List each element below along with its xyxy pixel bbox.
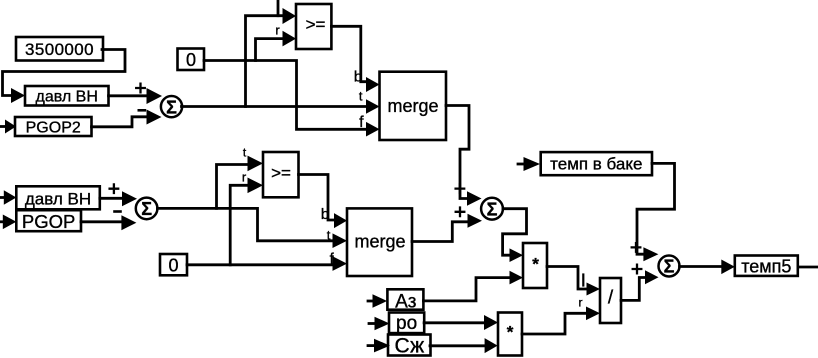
arrowhead into sum S2 plus bbox=[122, 191, 137, 206]
wire Сж input stub bbox=[368, 344, 374, 347]
wire stub from top edge into GE1 input 1 bbox=[277, 0, 280, 16]
arrowhead into product P2 input 2 bbox=[485, 338, 498, 353]
arrowhead into merge M2 t input bbox=[333, 233, 348, 248]
arrowhead into sum S1 plus bbox=[147, 88, 163, 104]
svg-text:3500000: 3500000 bbox=[25, 40, 94, 59]
wire PGOP to sum S2 minus input bbox=[81, 220, 123, 223]
arrowhead into темп5 bbox=[721, 260, 735, 275]
svg-text:0: 0 bbox=[186, 50, 196, 70]
wire темп в баке output to sum S4 input 1 bbox=[637, 163, 675, 254]
label plus sum S1 bbox=[136, 84, 145, 93]
arrowhead into sum S2 minus bbox=[121, 215, 136, 230]
label minus sum S1 bbox=[139, 109, 145, 112]
block темп в баке bbox=[541, 152, 652, 175]
svg-text:PGOP2: PGOP2 bbox=[26, 120, 81, 137]
svg-text:Σ: Σ bbox=[664, 257, 675, 277]
svg-text:*: * bbox=[532, 255, 539, 274]
wire давл ВН 2 to sum S2 plus input bbox=[100, 197, 123, 200]
svg-text:PGOP: PGOP bbox=[22, 211, 75, 232]
arrowhead into давл ВН 2 bbox=[4, 190, 16, 205]
block Сж bbox=[388, 335, 431, 356]
wire темп в баке input stub bbox=[518, 163, 524, 166]
svg-text:темп в баке: темп в баке bbox=[550, 155, 642, 174]
wire темп5 output to right edge bbox=[798, 266, 818, 269]
arrowhead into comparator GE2 input 2 bbox=[248, 178, 264, 194]
wire sum S4 output to темп5 bbox=[680, 265, 723, 268]
block давл ВН bbox=[25, 86, 109, 106]
arrowhead into comparator GE1 input 1 bbox=[283, 8, 297, 24]
arrowhead into product P1 input 1 bbox=[510, 248, 524, 262]
label plus sum S3 input 2 bbox=[456, 208, 465, 217]
svg-text:>=: >= bbox=[306, 15, 326, 34]
svg-text:давл ВН: давл ВН bbox=[36, 89, 98, 106]
svg-text:ро: ро bbox=[396, 313, 417, 334]
wire junction riser to comparator GE1 input 1 bbox=[246, 16, 284, 107]
arrowhead into sum S4 input 2 bbox=[645, 270, 659, 284]
wire product P1 output to divide D1 l input bbox=[547, 267, 586, 290]
wire Аз input stub bbox=[368, 300, 373, 303]
arrowhead into divide D1 r input bbox=[586, 307, 600, 321]
arrowhead into comparator GE1 input 2 bbox=[283, 31, 297, 47]
svg-text:merge: merge bbox=[354, 232, 405, 252]
label plus sum S4 input 1 bbox=[632, 243, 641, 252]
arrowhead into product P2 input 1 bbox=[484, 315, 498, 330]
svg-text:r: r bbox=[275, 23, 280, 38]
sum S2 bbox=[136, 198, 158, 220]
wire ро output to product P2 input 1 bbox=[424, 321, 484, 324]
constant 3500000 bbox=[16, 37, 103, 61]
comparator GE2 bbox=[263, 152, 299, 197]
arrowhead into merge M1 t input bbox=[366, 99, 380, 114]
label l on divide D1 bbox=[582, 275, 584, 286]
arrowhead into sum S3 input 1 bbox=[467, 191, 482, 206]
svg-text:t: t bbox=[327, 228, 331, 243]
constant 0b bbox=[160, 254, 187, 275]
sum S4 bbox=[659, 256, 680, 277]
arrowhead into sum S3 input 2 bbox=[468, 214, 483, 228]
wire constant 0a to merge M1 f input bbox=[204, 61, 366, 130]
svg-text:Σ: Σ bbox=[141, 199, 152, 219]
wire PGOP2 input stub bbox=[0, 125, 7, 128]
wire sum S1 output to merge M1 t input bbox=[182, 105, 367, 108]
arrowhead into PGOP2 bbox=[5, 120, 16, 134]
svg-text:t: t bbox=[359, 88, 363, 103]
arrowhead into merge M1 f input bbox=[366, 122, 380, 137]
svg-text:b: b bbox=[354, 68, 362, 85]
divide D1 bbox=[600, 278, 621, 323]
svg-text:r: r bbox=[579, 296, 583, 310]
arrowhead into sum S4 input 1 bbox=[643, 247, 658, 261]
label plus sum S4 input 2 bbox=[633, 265, 642, 274]
block ро bbox=[389, 313, 424, 334]
wire branch of 0a to comparator GE1 input 2 bbox=[256, 39, 284, 61]
wire PGOP2 to sum S1 minus input bbox=[92, 117, 149, 127]
svg-text:Сж: Сж bbox=[394, 335, 424, 358]
wire comparator GE2 output to merge M2 b input bbox=[299, 175, 336, 221]
arrowhead into merge M2 f input bbox=[333, 256, 348, 271]
constant 0a bbox=[178, 49, 205, 71]
wire divide D1 output to sum S4 input 2 bbox=[621, 278, 645, 301]
arrowhead into divide D1 l input bbox=[587, 283, 601, 296]
svg-text:>=: >= bbox=[271, 164, 291, 183]
wire merge M1 output to sum S3 input 1 bbox=[446, 106, 469, 199]
wire sum S2 output to merge M2 t input bbox=[157, 208, 333, 240]
product P2 bbox=[498, 313, 522, 356]
block темп5 bbox=[735, 256, 798, 276]
arrowhead into merge M2 b input bbox=[334, 213, 347, 228]
label minus sum S2 bbox=[115, 210, 121, 213]
arrowhead into давл ВН bbox=[11, 88, 25, 103]
wire branch of 0b to comparator GE2 input 2 bbox=[230, 185, 249, 264]
svg-text:давл ВН: давл ВН bbox=[25, 189, 91, 208]
svg-text:темп5: темп5 bbox=[741, 256, 791, 276]
sum S3 bbox=[481, 198, 503, 220]
block Аз bbox=[387, 289, 423, 309]
wire merge M2 output to sum S3 input 2 bbox=[412, 222, 468, 242]
merge M2 bbox=[347, 208, 412, 276]
wire Сж output to product P2 input 2 bbox=[430, 344, 484, 347]
wire constant 3500000 loop into давл ВН bbox=[3, 50, 126, 96]
svg-text:Σ: Σ bbox=[487, 199, 498, 219]
block PGOP bbox=[16, 210, 81, 231]
wire Аз output to product P1 input 2 bbox=[423, 278, 509, 301]
svg-text:r: r bbox=[242, 170, 247, 185]
label plus sum S3 input 1 bbox=[456, 184, 465, 193]
svg-text:merge: merge bbox=[387, 96, 438, 116]
merge M1 bbox=[380, 72, 447, 140]
arrowhead into comparator GE2 input 1 bbox=[248, 156, 264, 172]
block PGOP2 bbox=[15, 117, 92, 136]
svg-text:Аз: Аз bbox=[395, 291, 416, 312]
arrowhead into Аз bbox=[373, 294, 388, 308]
wire давл ВН 2 input stub bbox=[0, 196, 5, 199]
block давл ВН 2 bbox=[16, 186, 100, 209]
wire product P2 output to divide D1 r input bbox=[522, 313, 586, 334]
arrowhead into Сж bbox=[374, 339, 390, 353]
product P1 bbox=[523, 243, 547, 288]
svg-text:*: * bbox=[507, 323, 514, 342]
sum S1 bbox=[161, 96, 182, 117]
svg-text:0: 0 bbox=[168, 255, 178, 275]
arrowhead into merge M1 b input bbox=[366, 77, 380, 92]
arrowhead into темп в баке bbox=[524, 157, 541, 171]
arrowhead into ро bbox=[375, 317, 390, 331]
wire junction riser to comparator GE2 input 1 bbox=[217, 165, 250, 209]
wire ро input stub bbox=[369, 322, 374, 325]
label plus sum S2 bbox=[110, 184, 119, 193]
comparator GE1 bbox=[296, 4, 331, 49]
arrowhead into sum S1 minus bbox=[147, 110, 162, 125]
wire sum S3 output to product P1 input 1 bbox=[503, 209, 527, 256]
svg-text:f: f bbox=[359, 114, 364, 131]
wire PGOP input stub bbox=[0, 220, 4, 223]
arrowhead into PGOP bbox=[3, 215, 16, 230]
svg-text:/: / bbox=[608, 288, 614, 309]
wire constant 0b to merge M2 f input bbox=[187, 263, 333, 266]
wire comparator GE1 output to merge M1 b input bbox=[331, 26, 367, 81]
svg-text:b: b bbox=[321, 206, 329, 223]
wire давл ВН to sum S1 plus input bbox=[109, 94, 149, 97]
svg-text:Σ: Σ bbox=[166, 97, 177, 117]
arrowhead into product P1 input 2 bbox=[510, 271, 524, 285]
